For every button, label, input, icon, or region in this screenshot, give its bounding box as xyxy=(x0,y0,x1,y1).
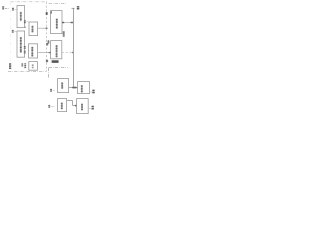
label of box F xyxy=(48,40,50,43)
label of box A xyxy=(12,8,16,11)
dark label on dashed border upper xyxy=(46,12,48,15)
label of box J xyxy=(89,106,94,110)
label 20 at bus top xyxy=(77,6,80,9)
box E (middle box) xyxy=(29,44,38,58)
label of box I xyxy=(90,90,95,94)
box J (cluster lower-right) xyxy=(77,99,89,114)
label of box H xyxy=(48,105,54,108)
box K (lowest middle box) xyxy=(29,62,38,71)
label of box G xyxy=(50,89,55,92)
label 100 top-left with pointer xyxy=(2,6,10,9)
arrowhead into box J xyxy=(75,105,77,107)
box A (top-left tall box) xyxy=(17,6,25,28)
z-wire box H to box J xyxy=(67,101,77,106)
label of box B xyxy=(12,30,17,33)
box G (cluster upper-left) xyxy=(58,79,69,93)
wire box D to bus xyxy=(62,22,73,24)
bus vertical line xyxy=(72,8,75,87)
wire box G - bus - box I xyxy=(69,87,78,89)
box F (center lower box) xyxy=(51,41,62,63)
enclosure 100 dash-dot border xyxy=(8,2,47,72)
enclosure 200 top dash-dot line xyxy=(49,3,67,5)
dark dash on border near box F xyxy=(46,60,48,63)
label right of box D xyxy=(63,31,65,36)
wire box C to dashed border xyxy=(38,28,48,29)
box D (center tall box) xyxy=(51,11,62,34)
box H (cluster lower-left) xyxy=(58,99,67,112)
box B (lower-left tall box) xyxy=(17,31,25,57)
label of box K xyxy=(21,63,26,68)
label at enclosure bottom-left xyxy=(9,63,11,69)
enclosure 300 corner (top + left stub) xyxy=(49,68,68,79)
dark mark at box D top-left xyxy=(50,11,52,14)
label 10 on dashed border xyxy=(46,43,48,46)
label of box C xyxy=(24,20,29,28)
faint wire box F to bus xyxy=(62,52,74,53)
label of box E xyxy=(24,46,26,54)
box I (cluster upper-right) xyxy=(78,82,90,94)
wire box E to box F xyxy=(38,52,51,53)
box C (upper middle small box) xyxy=(29,22,38,36)
